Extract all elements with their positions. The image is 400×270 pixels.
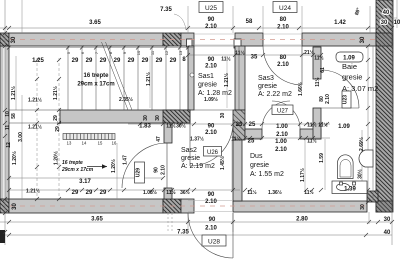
svg-text:14: 14 — [82, 141, 87, 146]
label U24 — [273, 2, 297, 13]
svg-text:1.09½: 1.09½ — [204, 96, 218, 103]
svg-text:29: 29 — [114, 58, 121, 64]
svg-text:1.09: 1.09 — [338, 124, 350, 130]
ticks y124 — [138, 122, 370, 126]
svg-text:25: 25 — [248, 139, 255, 145]
sink right wall D — [359, 150, 373, 167]
ticks y55b — [186, 53, 323, 57]
junction block bottom right — [376, 201, 392, 212]
dim vertical x13 — [15, 56, 17, 110]
svg-text:2.10: 2.10 — [205, 199, 217, 205]
ticks y55 — [7, 46, 190, 50]
svg-text:1.21½: 1.21½ — [10, 86, 17, 100]
svg-text:30: 30 — [155, 115, 161, 121]
svg-text:25: 25 — [249, 122, 256, 128]
door U28 arc — [188, 213, 233, 258]
svg-text:1.21½: 1.21½ — [28, 124, 42, 131]
svg-text:61: 61 — [320, 67, 326, 73]
wall baie left vertical — [313, 47, 321, 79]
svg-text:12: 12 — [6, 142, 12, 148]
ticks x37 — [35, 58, 39, 201]
svg-text:Baie: Baie — [342, 62, 357, 71]
label U25 — [199, 2, 223, 13]
dim vertical x59 — [58, 58, 60, 199]
ticks y138 — [243, 136, 315, 140]
column bottom band hatch — [163, 199, 181, 213]
insulation dash bottom band — [10, 205, 366, 207]
label U28 — [202, 235, 226, 246]
svg-text:U23: U23 — [343, 95, 349, 104]
wall sas1 bottom — [60, 110, 190, 123]
svg-text:40: 40 — [383, 10, 390, 16]
dim line sas row — [128, 123, 330, 125]
svg-text:58: 58 — [246, 19, 253, 25]
svg-text:U27: U27 — [277, 109, 289, 115]
dim 90 2.10 sas1 — [205, 57, 217, 70]
svg-text:2.10: 2.10 — [205, 130, 217, 136]
svg-text:A: 3.07 m2: A: 3.07 m2 — [342, 84, 378, 93]
bottom edges — [9, 45, 392, 47]
svg-text:11½: 11½ — [307, 138, 316, 145]
room outline sas1 — [193, 46, 195, 110]
svg-text:13: 13 — [178, 50, 183, 55]
svg-text:90: 90 — [209, 217, 216, 223]
wall right column hatch — [376, 0, 393, 212]
svg-text:16 trepte: 16 trepte — [62, 160, 83, 166]
svg-text:3.17: 3.17 — [79, 179, 91, 185]
sas1 dim verticals — [226, 56, 228, 108]
svg-text:90: 90 — [154, 167, 160, 173]
black mark bottom left — [0, 230, 5, 243]
svg-text:A: 1.28 m2: A: 1.28 m2 — [198, 90, 232, 97]
svg-text:2.10: 2.10 — [205, 226, 217, 232]
ticks y218 — [7, 220, 394, 224]
svg-text:U25: U25 — [205, 5, 217, 12]
svg-text:15: 15 — [98, 141, 103, 146]
sink counter — [332, 181, 367, 194]
ticks y232 — [7, 233, 368, 237]
svg-text:2.35½: 2.35½ — [119, 96, 133, 103]
svg-text:2.10: 2.10 — [277, 25, 289, 31]
svg-text:12: 12 — [57, 120, 62, 125]
svg-text:11½: 11½ — [231, 136, 240, 143]
svg-text:29: 29 — [86, 58, 93, 64]
svg-text:1.39: 1.39 — [344, 187, 356, 193]
svg-text:29: 29 — [55, 126, 61, 132]
wall bottom band small — [181, 199, 194, 213]
wall top band gray — [9, 33, 163, 46]
svg-text:30: 30 — [11, 36, 17, 43]
svg-text:7.35: 7.35 — [177, 230, 189, 236]
svg-text:30: 30 — [360, 36, 366, 43]
dim vertical x22b — [21, 95, 23, 199]
svg-text:30½: 30½ — [357, 169, 364, 179]
threshold lines U25 — [194, 33, 235, 35]
label U23 — [342, 91, 351, 108]
svg-text:Dus: Dus — [250, 153, 263, 160]
svg-text:gresie: gresie — [258, 83, 277, 90]
svg-text:Sas3: Sas3 — [258, 75, 274, 82]
sas2 dim verticals — [116, 143, 118, 199]
svg-text:40: 40 — [384, 230, 391, 236]
wall top band 58 — [235, 33, 263, 46]
stair treads lower — [63, 134, 115, 140]
door U24 leaf — [301, 46, 303, 85]
svg-text:30: 30 — [384, 217, 391, 223]
svg-text:11½: 11½ — [314, 77, 321, 86]
dim 80 2.10 U23 rot — [319, 94, 331, 104]
svg-text:1.17½: 1.17½ — [299, 168, 306, 182]
ticks x59 — [57, 58, 61, 201]
dim line dus top row — [245, 137, 330, 139]
svg-text:2.10: 2.10 — [275, 147, 287, 153]
svg-text:90: 90 — [208, 192, 215, 198]
svg-text:gresie: gresie — [198, 82, 217, 89]
svg-text:gresie: gresie — [181, 155, 200, 162]
column sas1 bottom hatch — [163, 110, 190, 123]
dus outline — [241, 139, 243, 201]
svg-text:1.21½: 1.21½ — [145, 72, 152, 86]
svg-text:30: 30 — [12, 203, 18, 210]
room sas2 — [181, 147, 215, 170]
svg-text:29: 29 — [128, 58, 135, 64]
svg-text:80: 80 — [280, 17, 287, 23]
left col dims — [5, 72, 230, 165]
dim line stairs bottom — [9, 189, 240, 191]
svg-text:13: 13 — [67, 141, 72, 146]
ticks y28 — [7, 26, 394, 30]
svg-text:2.10: 2.10 — [205, 24, 217, 30]
dim U27 — [276, 124, 288, 138]
svg-text:90: 90 — [208, 124, 215, 130]
svg-text:1.42: 1.42 — [334, 20, 346, 26]
svg-text:1.00: 1.00 — [276, 124, 288, 130]
svg-text:2.10: 2.10 — [325, 94, 331, 104]
svg-text:3.65: 3.65 — [89, 20, 101, 26]
svg-text:47: 47 — [156, 136, 162, 142]
dim line bottom 2 — [0, 234, 392, 236]
svg-text:1.09: 1.09 — [343, 56, 355, 62]
svg-text:29: 29 — [100, 58, 107, 64]
svg-text:gresie: gresie — [250, 162, 269, 169]
svg-text:23: 23 — [236, 122, 243, 128]
stair side lines — [9, 109, 60, 111]
svg-text:11½: 11½ — [247, 189, 256, 196]
svg-text:11½: 11½ — [318, 122, 327, 129]
svg-text:29: 29 — [86, 190, 93, 196]
svg-text:1.36½: 1.36½ — [268, 189, 282, 196]
dim 90 2.10 U28 — [205, 217, 217, 232]
svg-text:11½: 11½ — [314, 55, 323, 62]
svg-text:gresie: gresie — [342, 73, 362, 82]
dim 90 2.10 U29 rot — [154, 165, 167, 175]
door U23 arc — [321, 70, 359, 108]
door U29 arc — [122, 143, 167, 188]
svg-text:1.20½: 1.20½ — [53, 151, 60, 165]
svg-text:90: 90 — [208, 57, 215, 63]
wall stair-sas1 — [188, 46, 194, 110]
door U24 arc — [263, 46, 302, 85]
svg-text:80: 80 — [280, 55, 287, 61]
junction block top right — [376, 33, 392, 46]
threshold lines U24 — [263, 33, 302, 35]
svg-text:3.65: 3.65 — [91, 217, 103, 223]
room baie — [342, 62, 378, 93]
svg-text:1.21½: 1.21½ — [28, 97, 42, 104]
vertical ext top — [187, 6, 189, 33]
door U28 leaf — [232, 213, 234, 258]
svg-text:1.21½: 1.21½ — [52, 86, 59, 100]
svg-text:29: 29 — [72, 190, 79, 196]
svg-text:2.10: 2.10 — [277, 62, 289, 68]
dus dim verticals — [304, 140, 306, 190]
svg-text:1.21½: 1.21½ — [26, 188, 40, 195]
svg-text:11½: 11½ — [307, 122, 316, 129]
svg-text:29cm x 17cm: 29cm x 17cm — [61, 167, 94, 173]
toilet — [338, 155, 354, 179]
svg-text:30: 30 — [143, 115, 149, 121]
ticks y190 — [7, 188, 370, 192]
svg-text:1.21½: 1.21½ — [223, 73, 230, 87]
dim line 3.17 — [9, 177, 163, 179]
svg-text:21½: 21½ — [304, 49, 314, 56]
dim 90 2.10 sas2 bottom — [205, 192, 217, 205]
svg-text:1.47: 1.47 — [123, 155, 129, 165]
svg-text:90: 90 — [208, 17, 215, 23]
svg-text:35: 35 — [251, 55, 258, 61]
svg-text:2.10: 2.10 — [276, 132, 288, 138]
svg-text:30½: 30½ — [176, 123, 186, 130]
svg-text:A: 1.55 m2: A: 1.55 m2 — [250, 171, 284, 178]
label U27 — [272, 105, 293, 115]
svg-text:A: 2.19 m2: A: 2.19 m2 — [181, 163, 215, 170]
door U23 leaf — [321, 107, 359, 109]
leader 7.35 — [174, 14, 186, 30]
svg-text:U24: U24 — [279, 5, 291, 12]
label U26 — [204, 147, 222, 157]
dim 80 2.10 U24 — [277, 17, 289, 31]
svg-text:1.08½: 1.08½ — [143, 189, 157, 196]
threshold lines U28 — [188, 200, 233, 202]
dim 90 2.10 U26 — [205, 124, 217, 137]
svg-text:29: 29 — [100, 190, 107, 196]
dim line bottom 1 — [0, 221, 392, 223]
door U25 jamb left — [187, 39, 193, 47]
svg-text:2.80: 2.80 — [296, 217, 308, 223]
svg-text:U29: U29 — [136, 168, 142, 177]
door U27 arcs — [262, 101, 290, 129]
stair numbers upper — [66, 50, 183, 55]
dim 80 2.10 sas3 — [277, 55, 289, 68]
svg-text:1.20½: 1.20½ — [11, 151, 18, 165]
door U29 leaf — [166, 143, 168, 188]
svg-text:11: 11 — [5, 125, 11, 131]
room sas1 — [198, 73, 232, 97]
svg-text:1.37½: 1.37½ — [190, 136, 204, 143]
dim 29 row — [72, 57, 187, 64]
svg-text:Sas2: Sas2 — [181, 147, 197, 154]
ticks y178 — [7, 176, 165, 180]
wall top band small — [181, 33, 194, 46]
svg-text:30: 30 — [220, 113, 226, 119]
svg-text:29: 29 — [156, 58, 163, 64]
dim vertical x37 — [36, 58, 38, 199]
right edge outer line — [396, 0, 398, 28]
dim line top horizontal — [0, 27, 392, 29]
insulation dash top band — [10, 39, 377, 41]
svg-text:11½: 11½ — [221, 56, 230, 63]
svg-text:16: 16 — [112, 141, 117, 146]
svg-text:29cm x 17cm: 29cm x 17cm — [77, 82, 114, 88]
svg-text:11½: 11½ — [166, 123, 175, 130]
svg-text:16 trepte: 16 trepte — [83, 73, 109, 79]
svg-text:1.45½: 1.45½ — [219, 156, 226, 170]
svg-text:1.25: 1.25 — [32, 58, 44, 64]
svg-text:10: 10 — [136, 50, 141, 55]
svg-text:10: 10 — [394, 20, 400, 26]
room dus — [250, 153, 284, 178]
svg-text:1.00: 1.00 — [275, 139, 287, 145]
svg-text:11½: 11½ — [304, 189, 313, 196]
wall bottom band right — [233, 201, 367, 212]
label U29 — [135, 162, 145, 183]
door U25 jamb right — [234, 39, 241, 48]
door U26 arc — [190, 123, 233, 166]
svg-text:58: 58 — [11, 113, 17, 119]
ticks x5 — [3, 26, 7, 234]
stair arrow line — [87, 166, 107, 168]
dim 90 2.10 U25 — [205, 17, 217, 30]
corner black triangle — [367, 191, 378, 202]
svg-text:1.59: 1.59 — [319, 153, 325, 163]
baie inner line — [372, 46, 374, 202]
wall dus top — [245, 129, 262, 139]
svg-text:11½: 11½ — [235, 50, 244, 57]
svg-text:12: 12 — [164, 50, 169, 55]
svg-text:29: 29 — [72, 58, 79, 64]
column top band hatch — [163, 33, 181, 46]
wall top band 1.42 — [302, 33, 378, 46]
svg-text:1.66½: 1.66½ — [297, 82, 304, 96]
wall bottom band left hatch — [0, 199, 9, 213]
svg-text:1.20½: 1.20½ — [110, 159, 117, 173]
svg-text:36½: 36½ — [180, 189, 190, 196]
radiator baie — [336, 52, 363, 62]
svg-text:30: 30 — [381, 20, 388, 26]
svg-text:Sas1: Sas1 — [198, 73, 214, 80]
wall top band left hatch — [0, 33, 9, 46]
stair cut diagonal — [102, 42, 129, 110]
stair numbers lower — [67, 141, 117, 146]
stairs text lower — [61, 160, 94, 173]
svg-text:A: 2.22 m2: A: 2.22 m2 — [258, 91, 292, 98]
door U26 leaf — [189, 123, 191, 166]
svg-text:11½: 11½ — [166, 189, 175, 196]
svg-text:3.00: 3.00 — [18, 132, 24, 142]
ticks x368 — [366, 44, 370, 204]
svg-text:2.10: 2.10 — [161, 165, 167, 175]
room sas3 — [258, 75, 292, 98]
dim line left vertical — [4, 0, 6, 245]
wall central vertical — [235, 46, 245, 110]
wall left strip — [0, 46, 9, 199]
svg-text:2.10: 2.10 — [205, 64, 217, 70]
svg-text:U28: U28 — [208, 239, 220, 246]
svg-text:2.69½: 2.69½ — [358, 137, 365, 151]
dim line under band — [9, 47, 194, 49]
svg-text:U26: U26 — [207, 150, 219, 156]
dim line right rooms — [367, 46, 369, 202]
svg-text:7.35: 7.35 — [160, 7, 172, 13]
stair treads upper — [68, 46, 180, 110]
vertical ext bottom — [187, 213, 189, 232]
svg-text:1.83: 1.83 — [139, 124, 151, 130]
room outline sas3 top — [238, 46, 240, 110]
svg-text:29: 29 — [170, 58, 177, 64]
hinge circle — [190, 73, 194, 77]
svg-text:29: 29 — [142, 58, 149, 64]
stairs text upper — [77, 73, 114, 88]
svg-text:30: 30 — [360, 204, 366, 210]
wall sas2 left vertical — [164, 123, 172, 143]
wall bottom band gray — [9, 199, 163, 213]
